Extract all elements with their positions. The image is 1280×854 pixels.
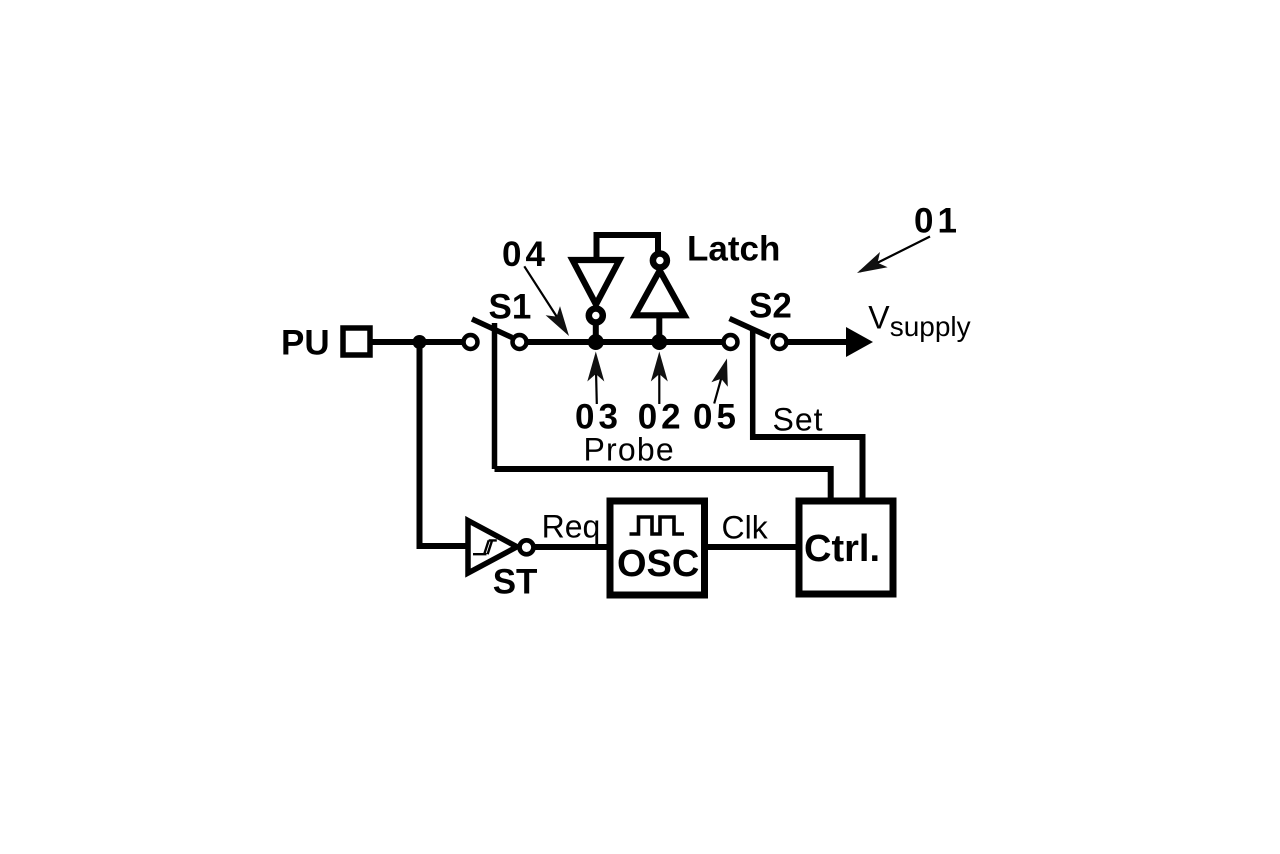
leader arrow 05 [714, 372, 723, 404]
leader arrow 04 [524, 266, 566, 331]
wire U1 bubble to node 03 [593, 323, 599, 342]
bubble of inverter U2 [653, 254, 667, 268]
wire Set [753, 437, 863, 501]
svg-text:Set: Set [773, 402, 824, 438]
wire PU to S1 [371, 339, 463, 345]
switch S2 left contact [724, 335, 738, 349]
squarewave glyph in OSC [630, 517, 685, 534]
svg-text:PU: PU [281, 323, 330, 362]
switch S2 lever [730, 319, 771, 338]
inverter U1 (down) of latch [573, 260, 620, 305]
wire ST to OSC [535, 544, 610, 550]
leader arrow 02 [658, 362, 660, 404]
arrowhead Vsupply [846, 327, 873, 357]
svg-text:S2: S2 [749, 287, 792, 326]
wire latch feedback loop [597, 235, 659, 262]
svg-text:Probe: Probe [584, 432, 675, 468]
svg-text:Clk: Clk [722, 509, 769, 545]
switch S2 right contact [773, 335, 787, 349]
bubble of inverter U1 [589, 309, 603, 323]
junction node dot [413, 335, 427, 349]
svg-text:V: V [868, 300, 890, 336]
bubble of ST [520, 540, 534, 554]
wire junction down and right to ST [420, 339, 469, 546]
hysteresis symbol of ST [473, 540, 497, 554]
node 03 dot [588, 334, 604, 350]
svg-text:ST: ST [493, 563, 538, 602]
box OSC [610, 501, 705, 595]
wire S2 tap down to Set [750, 328, 756, 440]
box Ctrl [799, 501, 893, 594]
leader arrow 01 [860, 237, 930, 272]
wire S2 to Vsupply arrow [787, 339, 849, 345]
inverter U2 (up) of latch [635, 271, 685, 316]
svg-text:05: 05 [693, 398, 740, 437]
switch S1 lever [472, 319, 512, 338]
svg-text:Req: Req [542, 508, 601, 544]
svg-text:supply: supply [890, 311, 971, 342]
svg-text:OSC: OSC [617, 543, 699, 585]
pad PU (terminal square) [343, 328, 370, 355]
leader arrow 03 [596, 362, 597, 404]
wire S1 tap down to Probe [492, 323, 498, 469]
svg-text:01: 01 [914, 202, 961, 241]
svg-text:Latch: Latch [687, 230, 780, 269]
svg-text:Ctrl.: Ctrl. [804, 528, 880, 570]
svg-text:S1: S1 [489, 288, 532, 327]
wire Clk [705, 544, 799, 550]
wire Probe [495, 469, 831, 501]
schmitt trigger ST [468, 521, 517, 574]
wire main bus S1 to S2 [526, 339, 723, 345]
node 02 dot [651, 334, 667, 350]
switch S1 left contact [464, 335, 478, 349]
switch S1 right contact [513, 335, 527, 349]
wire U2 base to node 02 [656, 316, 662, 342]
